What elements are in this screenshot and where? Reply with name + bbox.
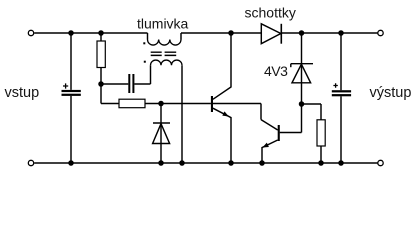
svg-text:4V3: 4V3: [264, 63, 288, 79]
svg-text:výstup: výstup: [370, 85, 412, 101]
svg-text:vstup: vstup: [5, 85, 40, 101]
svg-text:schottky: schottky: [245, 5, 296, 21]
svg-text:tlumivka: tlumivka: [137, 16, 189, 32]
